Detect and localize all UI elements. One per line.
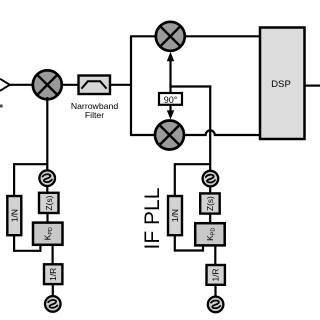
wire: Z(s) to KPD (left) bbox=[46, 213, 48, 223]
VCO oscillator (IF PLL) bbox=[203, 171, 219, 187]
DSP block bbox=[260, 28, 305, 140]
cropped text fragment at left edge bbox=[0, 105, 3, 108]
wire: LO rail horizontal bbox=[170, 85, 212, 87]
divider 1/N (IF PLL) bbox=[168, 163, 210, 252]
reference oscillator (IF PLL) bbox=[208, 297, 224, 313]
wire: VCO to Z(s) (IF PLL) bbox=[209, 186, 211, 194]
svg-text:Filter: Filter bbox=[85, 110, 104, 120]
wire: mixer M1 LO input from VCO bbox=[46, 97, 48, 171]
wire: 90deg to mixer M3 with down arrow bbox=[167, 105, 174, 120]
RF input arrow bbox=[0, 79, 10, 91]
wire: branch vertical (I/Q split) bbox=[130, 36, 132, 135]
wire: KPD to 1/R (IF PLL) bbox=[214, 245, 216, 265]
wire: VCO to Z(s) (left) bbox=[46, 186, 48, 194]
divider 1/R (IF PLL) bbox=[207, 265, 225, 285]
narrowband filter F1 bbox=[79, 76, 111, 95]
svg-text:DSP: DSP bbox=[271, 79, 291, 90]
wire: branch to mixer M3 (Q path) bbox=[130, 134, 155, 136]
svg-text:1/N: 1/N bbox=[170, 209, 180, 222]
mixer M1 (RF mixer) bbox=[33, 70, 62, 99]
svg-text:Z(s): Z(s) bbox=[44, 195, 54, 210]
svg-text:1/R: 1/R bbox=[48, 268, 58, 281]
wire: Z(s) to KPD (IF PLL) bbox=[209, 214, 211, 224]
phase shifter 90deg bbox=[159, 87, 182, 105]
divider 1/R (left) bbox=[44, 264, 62, 284]
reference oscillator (left PLL) bbox=[45, 296, 61, 312]
phase detector KPD (IF PLL) bbox=[195, 223, 225, 245]
wire: filter to branch node bbox=[110, 84, 132, 86]
wire: LO to mixer M2 with up arrow bbox=[167, 52, 174, 88]
mixer M3 (Q mixer) bbox=[155, 121, 184, 150]
wire: mixer M3 to DSP with crossover hop bbox=[184, 130, 260, 135]
wire: DSP output bbox=[305, 84, 320, 86]
label: Narrowband Filter bbox=[71, 101, 118, 120]
loop filter Z(s) (IF PLL) bbox=[200, 193, 220, 213]
wire: branch to mixer M2 (I path) bbox=[130, 35, 156, 37]
svg-text:IF PLL: IF PLL bbox=[141, 188, 164, 250]
svg-text:90°: 90° bbox=[164, 95, 178, 105]
wire: LO rail vertical from IF PLL VCO bbox=[209, 85, 211, 170]
wire: 1/R to reference oscillator (left) bbox=[52, 284, 54, 297]
wire: RF input to mixer M1 bbox=[10, 84, 33, 86]
VCO oscillator (left PLL) bbox=[39, 170, 55, 186]
svg-text:1/N: 1/N bbox=[9, 209, 19, 222]
wire: KPD to 1/R (left) bbox=[51, 245, 53, 265]
divider 1/N (left) bbox=[7, 163, 47, 252]
svg-text:1/R: 1/R bbox=[211, 268, 221, 281]
wire: 1/R to reference oscillator (IF PLL) bbox=[214, 285, 216, 297]
svg-text:Z(s): Z(s) bbox=[205, 196, 215, 211]
loop filter Z(s) (left) bbox=[39, 193, 59, 213]
mixer M2 (I mixer) bbox=[156, 22, 185, 51]
wire: mixer M2 to DSP bbox=[185, 35, 261, 37]
wire: mixer M1 to narrowband filter bbox=[62, 84, 80, 86]
phase detector KPD (left) bbox=[33, 223, 63, 245]
